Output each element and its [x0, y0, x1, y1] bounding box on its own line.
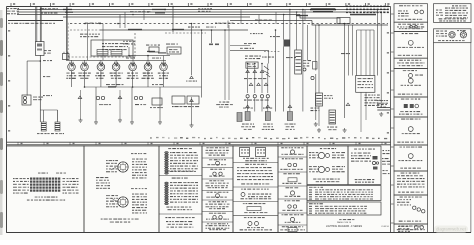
cluster pin labels right	[63, 178, 79, 194]
connector tri right	[346, 103, 350, 106]
D2 caption	[280, 169, 302, 170]
wire drop	[315, 25, 317, 71]
wire drop 268	[268, 50, 270, 63]
wire stub	[128, 47, 130, 56]
connector C2	[118, 96, 122, 99]
B8 header	[207, 223, 228, 224]
wire color code table 1	[307, 186, 381, 201]
cluster pin labels left	[13, 178, 29, 194]
emission fuel pump relay label	[245, 56, 261, 60]
B2 caption	[208, 164, 227, 165]
upper conn title	[131, 153, 146, 154]
L2 speaker connector pair	[410, 26, 413, 29]
box door connectors	[84, 146, 159, 233]
wire label mid 4	[270, 36, 280, 37]
B5 icon lamp	[216, 194, 220, 198]
wire gauge feed rail	[66, 59, 166, 61]
D4 icon	[290, 191, 294, 195]
round connector lower	[118, 197, 128, 207]
small switch box	[313, 62, 318, 70]
wire	[39, 110, 41, 122]
wire drop 225	[224, 30, 226, 100]
A3 header	[165, 217, 194, 218]
wire	[307, 25, 309, 60]
cell E1 lamp systems	[307, 146, 348, 185]
dark label on rail	[108, 86, 116, 87]
wire	[132, 71, 134, 87]
column A cells	[159, 146, 202, 233]
F1 header	[354, 149, 375, 150]
connector	[246, 70, 250, 73]
legend box L8	[394, 145, 428, 171]
wire	[100, 60, 102, 63]
wire	[360, 30, 362, 76]
wire drop	[318, 25, 320, 93]
B7 caption	[206, 219, 229, 220]
right panel borders	[433, 43, 435, 233]
wire label	[85, 23, 101, 24]
bus terminal labels	[7, 8, 19, 14]
L5 extra icon	[409, 74, 413, 78]
center text block	[96, 177, 110, 189]
wire bus B	[17, 11, 344, 13]
legend box L2	[394, 22, 428, 31]
wire	[100, 71, 102, 87]
bus label dark B	[155, 12, 165, 13]
margin pin labels right of F1	[382, 158, 390, 165]
junction dots	[40, 6, 383, 88]
connector tri c	[288, 105, 292, 108]
legend box L11	[394, 224, 428, 233]
wire	[344, 24, 346, 119]
B2 header	[209, 159, 226, 160]
wire stub	[143, 10, 145, 21]
wire label 14 BROWN	[41, 13, 58, 14]
wire dimmer drop	[261, 64, 263, 94]
wire label	[206, 27, 216, 28]
connector tri b	[266, 105, 270, 108]
column D cells	[278, 146, 307, 233]
label tick 2	[215, 44, 219, 46]
wire	[380, 12, 382, 108]
wire	[373, 30, 375, 76]
wire mid feed	[100, 29, 248, 31]
connector block grid	[30, 178, 60, 192]
emission fuel pump relay box	[246, 62, 258, 68]
ground	[314, 122, 318, 126]
lamp socket LH front turn	[245, 112, 250, 121]
round connector upper	[118, 162, 128, 172]
wire	[131, 87, 133, 120]
wire	[26, 61, 28, 96]
wire label right	[341, 53, 350, 54]
connector pin chain A2	[165, 182, 169, 205]
label 4DR	[123, 41, 135, 45]
wire label 57 BLACK	[255, 19, 272, 20]
svg-text:PAGE CLM 16: PAGE CLM 16	[337, 221, 352, 224]
flasher label	[166, 44, 178, 45]
wire stub	[119, 15, 121, 29]
col G margin marks	[383, 150, 390, 154]
wire	[71, 71, 73, 87]
wire short ground drop	[80, 90, 82, 118]
C5 icon	[248, 222, 252, 226]
bus label dark A	[152, 9, 166, 10]
wire label 37	[43, 76, 50, 77]
wire accessory drop pair	[66, 7, 68, 61]
B6 text rows	[206, 204, 230, 208]
wire label	[152, 58, 161, 59]
wire	[84, 71, 86, 87]
connector labels 2	[244, 100, 269, 101]
small circle right of flasher	[303, 68, 306, 71]
flasher side label	[303, 60, 311, 67]
connector pin chain A1	[165, 152, 169, 175]
D3 caption	[282, 183, 301, 184]
wire	[84, 60, 86, 63]
wire dimmer drop	[247, 64, 249, 94]
ground	[343, 128, 347, 132]
wire label 30 WH-BL	[106, 84, 124, 85]
D7 header	[282, 226, 303, 227]
turn signal flasher striped	[295, 50, 302, 74]
B7 header	[209, 213, 226, 214]
B1 text rows	[206, 150, 229, 154]
ground	[118, 118, 122, 122]
C1 caption	[243, 158, 269, 159]
C3 icon	[241, 193, 245, 197]
wire label dark	[350, 14, 376, 16]
dark label	[311, 108, 320, 112]
inline connector box top	[337, 18, 350, 24]
harness run dash rows	[346, 6, 389, 14]
wire below junction box 2	[365, 92, 367, 120]
wire accessory	[230, 20, 312, 22]
B1 header	[206, 147, 228, 148]
wire label 37 BLACK	[40, 8, 58, 9]
wire stub	[227, 21, 229, 29]
table1 header	[309, 187, 323, 188]
relay emergency flasher	[167, 47, 181, 54]
wire to lamp box	[267, 98, 269, 112]
caption RH front turn	[262, 124, 274, 131]
bus tap label 2	[65, 12, 73, 13]
wire below junction box	[360, 92, 362, 132]
resistor block 1	[97, 50, 108, 56]
wire dimmer drop	[267, 64, 269, 94]
label tick	[209, 44, 213, 46]
B7 icon pair	[213, 216, 216, 219]
wire	[283, 47, 285, 112]
ammeter label	[127, 73, 139, 79]
svg-text:LIGHTING DIAGRAM - F SERIES: LIGHTING DIAGRAM - F SERIES	[326, 225, 363, 228]
wire label 10 BLACK	[8, 23, 55, 24]
ladder top rail	[357, 29, 374, 31]
wire label 57A	[135, 104, 146, 105]
B3 caption	[209, 176, 224, 177]
caption LH front turn	[241, 124, 255, 131]
ground	[317, 128, 321, 132]
wire label mid 3	[286, 57, 296, 58]
D7 icon	[288, 228, 297, 232]
connector on wire 191	[190, 76, 194, 79]
caption TO LIGHT SWITCH	[339, 219, 354, 220]
wire to lamp box	[247, 98, 249, 112]
right wire labels	[377, 100, 388, 104]
spoked connector b	[460, 32, 466, 38]
ignition switch label	[44, 50, 51, 54]
ground	[79, 118, 83, 122]
regulator caption	[80, 34, 100, 38]
legend box L7	[394, 117, 428, 145]
connector	[257, 83, 261, 86]
connector circles row	[246, 95, 249, 98]
wire bus C	[17, 14, 300, 16]
legend box L3	[394, 32, 428, 59]
wire	[201, 30, 203, 98]
wire stub	[240, 10, 242, 25]
C5 cell	[244, 217, 265, 218]
E1 right labels 2	[332, 166, 345, 172]
alternator gauge	[68, 62, 76, 71]
B5 caption	[206, 197, 227, 198]
speed lamp	[144, 62, 152, 71]
wire label 16 RED	[130, 11, 150, 12]
wire label 297	[188, 27, 200, 28]
headlamp outer	[318, 152, 324, 158]
wire to lamp box	[261, 98, 263, 112]
wire	[211, 30, 213, 43]
socket caption	[327, 127, 337, 131]
wire label 2B	[244, 43, 256, 44]
sender box mid	[152, 98, 162, 105]
wire drop lower	[315, 74, 317, 120]
tri labels	[243, 108, 253, 109]
legend box R1	[434, 4, 472, 23]
oil gauge label	[110, 73, 123, 79]
E1 right labels	[332, 152, 345, 158]
C4 icon block	[247, 207, 261, 211]
B1 caption	[209, 155, 225, 156]
striped socket tall	[329, 110, 336, 124]
ignition switch S1	[36, 42, 45, 56]
wire	[115, 71, 117, 87]
D4 caption	[285, 196, 301, 197]
E1 left labels	[309, 152, 319, 158]
wire	[163, 71, 165, 87]
connector	[260, 70, 264, 73]
ground	[130, 120, 134, 124]
temp gauge label	[95, 73, 105, 79]
wire	[376, 10, 378, 76]
lamp socket RH front turn	[265, 112, 270, 121]
hazard flasher striped box	[316, 93, 323, 106]
D5 icon	[288, 205, 291, 208]
oil gauge	[112, 62, 120, 71]
wire label 57	[99, 104, 111, 105]
lamp label LH	[37, 133, 50, 134]
speed lamp label	[142, 73, 154, 79]
ts dark label 2	[158, 52, 166, 53]
D6 icon	[290, 217, 294, 221]
E1 header	[320, 148, 336, 149]
wire to lamp box	[254, 98, 256, 112]
turn signal switch box	[149, 47, 159, 52]
spoked connector a	[449, 32, 455, 38]
margin zone letters (decorative)	[8, 30, 389, 134]
C4 cell	[243, 203, 266, 204]
headlamp inner	[326, 154, 330, 158]
D3 header	[283, 173, 300, 174]
connector pair B	[134, 96, 137, 99]
A1 caption	[168, 171, 194, 172]
ts dark label	[147, 51, 155, 52]
wire bus D	[63, 16, 250, 18]
wire color code table 2	[307, 202, 381, 215]
cell F1 charge indicator	[348, 146, 381, 185]
wire horn branch	[27, 60, 40, 62]
ground	[190, 123, 194, 127]
wire	[275, 30, 277, 112]
right labels small	[377, 104, 387, 108]
wire	[39, 55, 41, 110]
wire short ground drop 2	[119, 90, 121, 118]
wire	[283, 15, 285, 40]
upper conn left labels	[106, 160, 118, 172]
zone labels row (decorative)	[150, 137, 387, 140]
wire to oil gauge	[147, 56, 149, 64]
A1 pin rows	[170, 152, 198, 172]
B6 header	[209, 201, 227, 202]
alternator gauge label	[66, 73, 76, 79]
wire junction to parking lamps	[40, 109, 57, 111]
connector	[253, 70, 257, 73]
instrument voltage regulator box	[63, 54, 70, 60]
caption LH rear	[285, 124, 296, 131]
wire label mid	[250, 33, 263, 34]
connector	[264, 83, 268, 86]
junction text box	[356, 76, 375, 93]
wire	[172, 7, 174, 33]
printed circuit caption	[172, 106, 199, 107]
legend box R2 blower motor relay	[434, 29, 472, 43]
wire label 21	[43, 60, 52, 61]
wire bus B dotted tail	[344, 11, 388, 13]
wire label mid 2	[262, 57, 274, 58]
wire	[191, 97, 193, 123]
cluster top labels	[38, 173, 48, 174]
ground	[379, 112, 383, 116]
resistor block 2	[111, 50, 122, 56]
wire	[115, 60, 117, 63]
wire	[159, 87, 161, 120]
C2 trailer list	[245, 164, 267, 165]
ammeter	[129, 62, 137, 71]
horn	[22, 95, 31, 105]
flasher label	[324, 95, 333, 99]
headlamp outer 2	[318, 166, 324, 172]
wire feed lines left	[230, 45, 250, 47]
horn label	[33, 97, 43, 101]
connector mid	[190, 99, 194, 102]
box2 caption 1	[101, 219, 139, 220]
fuel gauge label	[78, 73, 91, 79]
B8 caption	[209, 229, 226, 230]
wire accessory drop	[312, 21, 388, 26]
svg-text:diagramweb.net: diagramweb.net	[436, 227, 467, 232]
lamp socket marker	[237, 113, 242, 122]
ground	[158, 120, 162, 124]
wire lamp feed	[43, 110, 45, 122]
wire drop lower	[318, 106, 320, 126]
D5 header	[285, 200, 300, 201]
wire label 10BL	[240, 48, 254, 49]
column C cells	[233, 146, 278, 233]
lower conn left labels	[106, 195, 118, 207]
table2 header	[309, 203, 323, 204]
B5 header	[207, 192, 229, 193]
B8 text rows	[206, 225, 230, 229]
wire bus A	[17, 9, 310, 11]
C3 cell	[241, 189, 269, 190]
F1 text	[351, 153, 371, 162]
regulator text	[102, 43, 128, 50]
connector labels	[244, 78, 266, 79]
connector	[249, 83, 253, 86]
wire to LH rear socket	[289, 50, 291, 112]
lamp label RH	[51, 133, 64, 134]
D1 caption	[281, 154, 303, 155]
bus heavy label 2	[313, 11, 333, 12]
wire label	[215, 23, 234, 24]
temp gauge	[97, 62, 105, 71]
fuel gauge	[81, 62, 89, 71]
E1 left labels 2	[309, 166, 319, 172]
wire feed battery	[8, 20, 63, 22]
D6 header	[282, 214, 304, 215]
wire gauge top rail	[129, 55, 170, 57]
B3 icon pair	[213, 172, 216, 175]
tri labels 2	[263, 108, 272, 109]
lower conn title	[131, 188, 147, 189]
D7 caption	[280, 229, 305, 230]
wire	[289, 10, 291, 51]
E1 caption	[313, 179, 340, 183]
wire stub	[124, 12, 126, 28]
wire	[147, 71, 149, 87]
wire	[369, 30, 371, 76]
bus heavy label 1	[311, 8, 335, 10]
wire	[302, 10, 304, 112]
D3 icon	[288, 178, 297, 182]
column B cells	[202, 146, 233, 233]
wire drop above rail 2	[102, 24, 104, 61]
wire to amp gauge	[163, 56, 165, 64]
D6 caption	[285, 222, 301, 223]
B3 header	[210, 169, 224, 170]
wire label	[152, 84, 163, 85]
dashed enclosure engine compartment	[67, 23, 69, 57]
wire dashed harness run	[70, 23, 388, 25]
A2 caption	[166, 207, 192, 211]
D1 header	[281, 147, 303, 148]
cluster caption REAR INSTRUMENT CLUSTER	[27, 200, 65, 201]
bus label dark mid	[128, 29, 142, 31]
wire to temp gauge	[132, 56, 134, 64]
D1 icon	[290, 150, 294, 154]
right labels dense	[365, 95, 381, 107]
wire	[348, 25, 350, 76]
